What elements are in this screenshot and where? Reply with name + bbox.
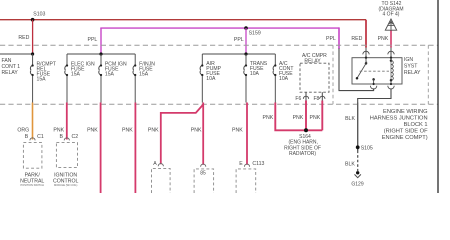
- svg-text:BLK: BLK: [345, 162, 355, 168]
- wire RED drop to R/CMPT REL fuse: [32, 20, 34, 54]
- wire PPL drop S159 to TRANS fuse: [245, 28, 247, 54]
- svg-text:HARNESS JUNCTION: HARNESS JUNCTION: [370, 115, 428, 121]
- svg-text:S103: S103: [33, 11, 45, 17]
- relay linkage dashed: [360, 70, 389, 72]
- connector terminal B C1: [30, 138, 35, 141]
- connector terminal B C2: [64, 138, 69, 141]
- connector 85 dashed box: [194, 169, 214, 193]
- svg-text:F6: F6: [295, 96, 301, 102]
- wire PNK from F/INJN fuse: [134, 103, 136, 194]
- node feed dot TRANS: [244, 52, 247, 55]
- svg-text:ENGINE COMPT): ENGINE COMPT): [382, 135, 428, 141]
- svg-text:10A: 10A: [279, 76, 289, 82]
- svg-text:PPL: PPL: [234, 37, 244, 43]
- svg-text:C2: C2: [72, 134, 79, 140]
- svg-text:E: E: [239, 161, 243, 167]
- svg-text:C113: C113: [252, 161, 264, 167]
- svg-text:PNK: PNK: [87, 127, 98, 133]
- node S159: [244, 26, 248, 30]
- wire BLK dashed to ground: [357, 151, 359, 172]
- connector E C113: [244, 164, 249, 167]
- connector 85: [201, 164, 206, 167]
- svg-text:PPL: PPL: [88, 37, 98, 43]
- wire PPL continuation inside block to relay common: [339, 49, 374, 91]
- relay top pin terminals: [365, 48, 367, 58]
- svg-text:4 OF 4): 4 OF 4): [383, 11, 400, 17]
- node S164: [304, 128, 308, 132]
- svg-text:RED: RED: [351, 36, 362, 42]
- svg-text:15A: 15A: [71, 71, 81, 77]
- svg-text:SYST: SYST: [404, 64, 418, 70]
- pin F6: [305, 92, 307, 101]
- wire PPL bus: [100, 27, 339, 29]
- svg-text:PNK: PNK: [122, 127, 133, 133]
- connector C113 dashed box: [236, 169, 256, 193]
- svg-text:PNK: PNK: [232, 128, 243, 134]
- relay switch output pin: [372, 78, 375, 81]
- svg-text:10A: 10A: [250, 71, 260, 77]
- wire RED drop to IGN SYST relay: [365, 20, 367, 48]
- svg-text:RELAY: RELAY: [404, 70, 421, 76]
- svg-text:BLOCK 1: BLOCK 1: [404, 122, 428, 128]
- fuse A/C CONT 10A: [273, 54, 275, 103]
- svg-text:C1: C1: [37, 134, 44, 140]
- wire PNK from pin F8: [321, 101, 323, 131]
- IGN SYST relay box: [352, 58, 402, 84]
- svg-text:PNK: PNK: [191, 128, 202, 134]
- svg-text:G129: G129: [351, 182, 363, 188]
- ground G129: [356, 171, 359, 174]
- dashed divider left of relay section: [332, 45, 334, 104]
- wire PNK air pump branch to connector A: [161, 105, 203, 165]
- svg-text:S105: S105: [361, 145, 373, 151]
- svg-text:RADIATOR): RADIATOR): [289, 151, 316, 157]
- svg-text:10A: 10A: [206, 76, 216, 82]
- svg-text:ENGINE WIRING: ENGINE WIRING: [383, 109, 428, 115]
- svg-text:PNK: PNK: [148, 127, 159, 133]
- pin F8: [321, 92, 323, 101]
- connector A dashed box: [152, 168, 171, 193]
- svg-text:PNK: PNK: [293, 115, 304, 121]
- wire PNK from pin F6: [305, 101, 307, 131]
- wire PNK from A/C CONT fuse to S164: [275, 103, 322, 131]
- node S103: [31, 18, 35, 22]
- wire PNK from AIR PUMP fuse to connector 85: [202, 103, 204, 165]
- node S105: [356, 145, 360, 149]
- fuse box A top edge: [67, 53, 135, 55]
- wire RED bus: [0, 19, 366, 21]
- svg-text:15A: 15A: [139, 71, 149, 77]
- svg-text:PPL: PPL: [326, 36, 336, 42]
- svg-text:A: A: [153, 161, 157, 167]
- svg-text:B: B: [59, 134, 63, 140]
- wire PNK to ignition control module: [66, 103, 68, 140]
- svg-text:PNK: PNK: [263, 115, 274, 121]
- junction block bottom dashed boundary: [0, 103, 438, 105]
- fuse R/CMPT REL 15A: [30, 54, 32, 103]
- relay coil: [390, 58, 392, 61]
- dashed divider right of relay section: [427, 45, 429, 104]
- svg-text:B: B: [25, 134, 29, 140]
- fuse F/INJN 15A: [133, 54, 135, 103]
- svg-text:(RIGHT SIDE OF: (RIGHT SIDE OF: [384, 129, 428, 135]
- fuse box B top edge: [202, 53, 275, 55]
- svg-text:PNK: PNK: [378, 36, 389, 42]
- wire coil low side to BLK: [358, 88, 391, 102]
- node feed dot R/CMPT: [31, 52, 34, 55]
- svg-text:15A: 15A: [105, 71, 115, 77]
- svg-text:PNK: PNK: [310, 115, 321, 121]
- svg-text:85: 85: [200, 170, 206, 176]
- relay switch: [365, 58, 367, 64]
- wire PPL riser from PCM IGN fuse: [100, 28, 102, 54]
- wire PNK from TRANS fuse to C113: [246, 103, 248, 165]
- junction block top dashed boundary: [0, 44, 438, 46]
- svg-text:PARK/: PARK/: [25, 172, 41, 178]
- svg-text:RELAY: RELAY: [2, 70, 19, 76]
- ignition control box: [56, 143, 77, 168]
- fuse ELEC IGN 15A: [65, 54, 67, 103]
- svg-text:PNK: PNK: [53, 127, 64, 133]
- connector A: [158, 164, 163, 167]
- wire PNK from PCM IGN fuse: [100, 103, 102, 194]
- svg-text:MODULE (W/ COIL): MODULE (W/ COIL): [54, 183, 78, 187]
- svg-text:POSITION SWITCH: POSITION SWITCH: [21, 183, 44, 187]
- wire PPL drop at right: [338, 27, 340, 49]
- solid right border: [437, 0, 439, 193]
- svg-text:IGN: IGN: [404, 57, 413, 63]
- svg-text:S159: S159: [249, 31, 261, 37]
- node feed dot PCM IGN: [99, 52, 102, 55]
- relay bottom pin terminals: [370, 86, 376, 89]
- svg-text:F8: F8: [314, 96, 320, 102]
- svg-text:BLK: BLK: [345, 116, 355, 122]
- fan cont 1 relay box top edge: [0, 53, 33, 55]
- svg-text:ORG: ORG: [17, 127, 29, 133]
- wire ORG to park/neutral switch: [32, 103, 34, 140]
- park/neutral position switch box: [23, 143, 42, 169]
- fuse AIR PUMP 10A: [200, 54, 202, 103]
- A/C CMPR relay dashed box: [300, 63, 329, 92]
- wire PNK from off-page triangle to relay: [390, 30, 392, 47]
- svg-text:15A: 15A: [37, 76, 47, 82]
- svg-text:RED: RED: [18, 35, 29, 41]
- wire BLK below block: [357, 103, 359, 151]
- fuse PCM IGN 15A: [99, 54, 101, 103]
- fuse TRANS 10A: [244, 54, 246, 103]
